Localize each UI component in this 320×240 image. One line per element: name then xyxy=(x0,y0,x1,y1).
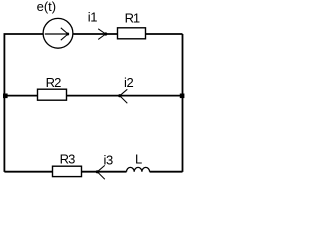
current arrow i2 xyxy=(120,89,128,103)
svg-text:i3: i3 xyxy=(104,152,113,167)
voltage source e(t) xyxy=(43,18,73,48)
wire bottom left segment xyxy=(4,171,52,173)
svg-text:L: L xyxy=(135,151,142,166)
resistor R2 xyxy=(38,89,67,100)
inductor L xyxy=(127,167,150,171)
resistor R3 xyxy=(53,166,82,176)
svg-text:i1: i1 xyxy=(88,10,97,25)
wire middle right segment (R2 to right) xyxy=(67,95,183,97)
svg-text:R2: R2 xyxy=(46,75,61,90)
wire bottom middle segment (R3 to inductor) xyxy=(82,171,127,173)
resistor R1 xyxy=(118,28,146,39)
wire middle left segment xyxy=(4,95,37,97)
wire left vertical xyxy=(3,34,5,172)
svg-text:e(t): e(t) xyxy=(37,0,57,14)
wire top middle segment (source to R1) xyxy=(73,33,117,35)
svg-text:R3: R3 xyxy=(60,151,75,166)
current arrow i1 xyxy=(98,29,106,40)
wire bottom right segment (inductor to corner) xyxy=(150,171,183,173)
wire right vertical xyxy=(182,34,184,172)
wire top left segment xyxy=(4,33,44,35)
current arrow i3 xyxy=(97,165,105,179)
wire top right segment (R1 to corner) xyxy=(146,33,183,35)
junction node left (middle-left) xyxy=(3,94,8,99)
svg-text:i2: i2 xyxy=(124,75,133,90)
svg-text:R1: R1 xyxy=(125,10,140,25)
junction node right (middle-right) xyxy=(180,94,185,99)
